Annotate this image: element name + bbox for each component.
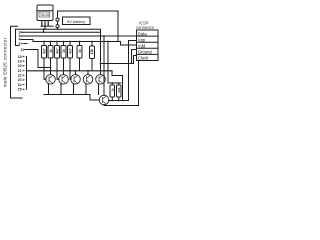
- wire R2 to Q1 collector: [50, 58, 52, 75]
- wire Clock: [101, 56, 137, 64]
- svg-text:1k: 1k: [62, 49, 66, 53]
- pin 4: [19, 38, 24, 42]
- svg-text:5k6: 5k6: [117, 87, 121, 92]
- svg-text:19: 19: [18, 60, 22, 64]
- resistor R8: [110, 83, 115, 101]
- transistor Q5: [96, 75, 106, 85]
- wire Ground: [123, 50, 137, 101]
- ICSP connector J2: [137, 30, 159, 61]
- wire R5 to Q3 base: [70, 58, 71, 79]
- resistor R7: [90, 42, 95, 59]
- svg-text:Vdd: Vdd: [138, 44, 146, 49]
- resistor R1: [42, 42, 47, 59]
- wire ground pin bus: [26, 56, 28, 89]
- wire Q3 emitter: [73, 84, 75, 95]
- svg-text:4k7: 4k7: [69, 48, 73, 54]
- svg-text:1k: 1k: [49, 49, 53, 53]
- wire regulator output: [41, 26, 53, 29]
- wire Q3 collector stub: [75, 71, 77, 75]
- battery BT1 9V box: [63, 17, 91, 25]
- wire R1 to Q1 base: [44, 58, 46, 79]
- svg-text:1k: 1k: [78, 49, 82, 53]
- transistor Q3: [71, 75, 81, 85]
- pin 2: [19, 31, 24, 35]
- wire junction dots: [43, 28, 130, 101]
- svg-text:24: 24: [18, 83, 22, 87]
- pin 10: [21, 48, 51, 67]
- regulator legs: [42, 21, 48, 26]
- svg-text:Ground: Ground: [138, 50, 153, 55]
- wire ground rail: [27, 70, 113, 72]
- pins 18-25: [18, 55, 26, 92]
- wire Vpp node: [108, 82, 121, 84]
- svg-text:78L05: 78L05: [40, 13, 50, 17]
- svg-text:9V battery: 9V battery: [67, 19, 85, 24]
- battery terminal node B+: [56, 18, 59, 21]
- wire R3 to Q2 base: [57, 58, 59, 79]
- svg-text:4k7: 4k7: [43, 48, 47, 54]
- svg-text:18: 18: [18, 55, 22, 59]
- svg-text:20: 20: [18, 64, 22, 68]
- wire Q4 collector stub: [87, 71, 89, 75]
- svg-text:21: 21: [18, 69, 22, 73]
- transistor Q6: [99, 95, 109, 105]
- wire rail pin3 Data: [21, 35, 137, 37]
- wire collector drop x108: [107, 42, 109, 84]
- resistor R3: [55, 42, 60, 59]
- transistor Q2: [59, 75, 69, 85]
- wire top supply: [58, 10, 119, 12]
- pin 5: [19, 42, 28, 46]
- male DB25 connector body: [11, 26, 23, 98]
- resistor R2: [48, 42, 53, 59]
- wire bus to Q6 base: [90, 95, 99, 101]
- wire emitter bus: [44, 94, 90, 96]
- transistor Q4: [83, 75, 93, 85]
- ICSP label: [136, 21, 155, 31]
- svg-text:22: 22: [18, 74, 22, 78]
- wire pin1/shield: [16, 29, 101, 32]
- wire R6 down: [79, 58, 81, 71]
- resistor R9: [117, 83, 122, 101]
- svg-text:10k: 10k: [90, 49, 94, 55]
- wire Q1 emitter: [48, 84, 50, 95]
- svg-text:25: 25: [18, 88, 22, 92]
- resistor R6: [77, 42, 82, 59]
- svg-text:male DB25 connector: male DB25 connector: [3, 37, 8, 87]
- transistor Q1: [46, 75, 56, 85]
- svg-text:Clock: Clock: [138, 56, 149, 61]
- wire Vpp: [129, 41, 137, 101]
- male DB25 inner bracket pins 2-5: [16, 29, 20, 45]
- svg-text:5: 5: [19, 42, 21, 46]
- wire R7 down: [91, 59, 93, 71]
- wire Q6 collector node: [109, 100, 129, 102]
- wire battery column: [57, 11, 59, 29]
- wire R4 to Q2 collector: [63, 58, 65, 75]
- resistor R4: [61, 42, 66, 59]
- svg-text:4k7: 4k7: [56, 48, 60, 54]
- wire rail pin4 Vdd: [21, 40, 137, 46]
- svg-text:10: 10: [21, 48, 25, 52]
- voltage regulator U1 78L05: [37, 5, 53, 21]
- battery terminal node B-: [56, 25, 59, 28]
- resistor R5: [68, 42, 73, 59]
- svg-text:1k: 1k: [110, 88, 114, 92]
- wire ground step: [112, 71, 123, 76]
- svg-text:Vpp: Vpp: [138, 37, 146, 42]
- svg-text:connector: connector: [136, 25, 155, 30]
- svg-text:23: 23: [18, 78, 22, 82]
- wire rail pin2: [21, 29, 101, 74]
- wire Q5 emitter: [98, 84, 100, 95]
- wire supply drop: [117, 11, 119, 42]
- svg-text:Data: Data: [138, 31, 148, 36]
- wire Q2 emitter: [60, 84, 62, 95]
- wire collector drop x104: [103, 36, 105, 95]
- wire Q4 emitter: [85, 84, 87, 95]
- wire Q6 emitter: [104, 61, 139, 106]
- pin 3: [19, 34, 24, 38]
